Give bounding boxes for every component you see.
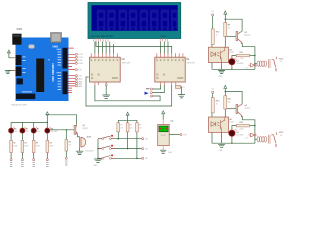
svg-text:SIM1: SIM1 [17, 28, 23, 31]
svg-text:IN1: IN1 [145, 139, 148, 141]
svg-text:IO12: IO12 [79, 57, 83, 59]
svg-text:R13: R13 [216, 101, 219, 103]
svg-text:1k: 1k [216, 35, 218, 37]
svg-text:R2: R2 [25, 142, 27, 144]
svg-text:D4 D7: D4 D7 [161, 36, 168, 38]
svg-text:R3: R3 [36, 142, 38, 144]
svg-text:UNO: UNO [53, 45, 59, 48]
svg-text:IO10: IO10 [79, 63, 83, 65]
svg-text:R11: R11 [240, 52, 243, 54]
svg-text:R6: R6 [69, 142, 71, 144]
svg-text:10k: 10k [228, 28, 231, 30]
svg-text:D2: D2 [237, 61, 239, 63]
svg-text:AD2: AD2 [79, 85, 83, 88]
svg-text:AD5: AD5 [79, 78, 83, 81]
svg-text:IN2: IN2 [145, 149, 148, 151]
svg-text:R4: R4 [49, 142, 51, 144]
svg-text:74HC595: 74HC595 [186, 62, 196, 64]
svg-text:R1: R1 [13, 142, 15, 144]
svg-text:IO9: IO9 [79, 69, 82, 71]
svg-text:R8: R8 [130, 125, 132, 127]
svg-text:VSS VDD VEE RS RW E: VSS VDD VEE RS RW E [91, 36, 115, 38]
svg-text:PC817: PC817 [229, 122, 234, 124]
svg-text:Q2: Q2 [244, 32, 247, 34]
svg-text:IN3: IN3 [145, 158, 148, 160]
svg-text:Q4: Q4 [244, 105, 247, 107]
svg-text:DHT11: DHT11 [161, 135, 167, 137]
svg-text:IO8: IO8 [79, 76, 82, 78]
svg-text:D8: D8 [51, 129, 53, 131]
svg-text:GND: GND [94, 165, 99, 167]
svg-text:R12: R12 [228, 99, 231, 101]
svg-text:LED-RED: LED-RED [237, 63, 245, 65]
svg-text:SOUNDER: SOUNDER [85, 151, 94, 153]
svg-text:D3: D3 [246, 137, 248, 139]
svg-text:SIMULINO UNO: SIMULINO UNO [11, 104, 27, 106]
svg-text:2N2222: 2N2222 [82, 128, 88, 130]
svg-text:1k: 1k [216, 104, 218, 106]
svg-text:LED-RED: LED-RED [237, 135, 245, 137]
svg-text:U4: U4 [229, 49, 231, 51]
svg-text:D6: D6 [26, 129, 28, 131]
svg-text:LED-RED: LED-RED [51, 131, 59, 133]
svg-text:C3: C3 [182, 87, 184, 89]
svg-text:D7: D7 [37, 129, 39, 131]
svg-text:R7: R7 [120, 125, 122, 127]
svg-text:R9: R9 [139, 125, 141, 127]
svg-text:S1: S1 [212, 11, 214, 13]
svg-text:2N2222: 2N2222 [244, 35, 250, 37]
svg-text:U6: U6 [229, 119, 231, 121]
svg-text:R9: R9 [228, 25, 230, 27]
svg-text:PC817: PC817 [229, 52, 234, 54]
svg-text:R10: R10 [216, 32, 219, 34]
svg-text:10k: 10k [69, 145, 72, 147]
svg-text:S2: S2 [212, 88, 214, 90]
svg-text:2N2222: 2N2222 [244, 108, 250, 110]
svg-text:R14: R14 [240, 122, 243, 124]
svg-text:BUZ1: BUZ1 [87, 136, 92, 138]
svg-text:D1: D1 [246, 68, 248, 70]
svg-text:GND: GND [168, 152, 173, 154]
svg-text:10k: 10k [130, 127, 133, 129]
svg-text:IO13: IO13 [79, 54, 83, 56]
svg-text:10k: 10k [139, 127, 142, 129]
svg-text:IO11: IO11 [79, 60, 83, 62]
svg-text:74HC595: 74HC595 [122, 62, 132, 64]
svg-text:∞: ∞ [48, 58, 50, 62]
svg-text:D4: D4 [237, 132, 239, 134]
svg-text:10k: 10k [120, 127, 123, 129]
svg-text:10k: 10k [228, 102, 231, 104]
svg-text:ARDUINO UNO: ARDUINO UNO [51, 63, 55, 82]
svg-text:D5: D5 [14, 129, 16, 131]
